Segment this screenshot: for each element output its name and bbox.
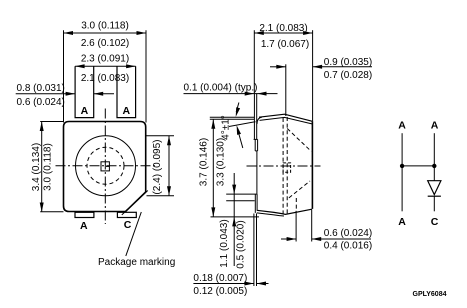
svg-text:0.6 (0.024): 0.6 (0.024) xyxy=(17,97,65,108)
svg-text:2.1 (0.083): 2.1 (0.083) xyxy=(259,23,307,34)
dimension (2.4) lens xyxy=(168,136,170,196)
svg-text:0.4 (0.016): 0.4 (0.016) xyxy=(324,240,372,251)
dimension 0.1 typ lead thickness xyxy=(184,93,255,95)
svg-text:3.3 (0.130): 3.3 (0.130) xyxy=(216,138,227,186)
svg-text:(2.4) (0.095): (2.4) (0.095) xyxy=(152,139,163,194)
hidden chip xyxy=(283,163,291,172)
svg-text:0.8 (0.031): 0.8 (0.031) xyxy=(17,83,65,94)
svg-text:0.6 (0.024): 0.6 (0.024) xyxy=(324,228,372,239)
inner dashed circle xyxy=(87,147,124,184)
dimension 0.6/0.4 foot xyxy=(281,238,296,240)
angle dimension 4 deg xyxy=(229,122,256,127)
wire bridge xyxy=(402,165,434,167)
svg-text:3.0 (0.118): 3.0 (0.118) xyxy=(81,21,129,32)
hidden reflector cone lower xyxy=(289,181,310,198)
svg-text:0.7 (0.028): 0.7 (0.028) xyxy=(324,70,372,81)
side view top edge xyxy=(259,114,312,121)
horizontal centerline top view xyxy=(56,165,156,167)
svg-text:0.18 (0.007): 0.18 (0.007) xyxy=(193,273,247,284)
svg-text:A: A xyxy=(80,220,88,232)
side view right face xyxy=(311,121,313,209)
svg-text:3.4 (0.134): 3.4 (0.134) xyxy=(31,143,42,191)
side view bottom edge xyxy=(257,209,312,214)
top view package body xyxy=(64,122,146,212)
top pad anode right xyxy=(117,66,136,117)
hidden reflector cone upper xyxy=(287,129,311,152)
hidden lead under body xyxy=(295,198,297,209)
svg-text:1.7 (0.067): 1.7 (0.067) xyxy=(261,39,309,50)
svg-text:0.5 (0.020): 0.5 (0.020) xyxy=(236,220,247,268)
svg-text:3.7 (0.146): 3.7 (0.146) xyxy=(199,138,210,186)
bottom pad cathode xyxy=(117,212,136,217)
svg-text:A: A xyxy=(398,120,406,132)
svg-text:0.12 (0.005): 0.12 (0.005) xyxy=(193,286,247,297)
svg-text:C: C xyxy=(124,219,132,231)
top pad anode left xyxy=(75,66,94,117)
dimension 0.9/0.7 xyxy=(270,66,286,68)
svg-text:2.6 (0.102): 2.6 (0.102) xyxy=(81,38,129,49)
svg-text:GPLY6084: GPLY6084 xyxy=(413,291,447,298)
downward solder lead xyxy=(253,214,255,287)
svg-text:A: A xyxy=(123,105,131,117)
dimension 0.18/0.12 lead thickness xyxy=(193,283,254,285)
dimension 1.1/0.5 lead xyxy=(226,193,257,195)
hidden reflector wall right xyxy=(286,117,288,214)
svg-text:C: C xyxy=(431,216,439,228)
package marking leader xyxy=(126,212,142,256)
wire right anode xyxy=(433,133,435,181)
svg-text:A: A xyxy=(81,105,89,117)
vertical centerline top view xyxy=(104,109,106,225)
dimension 0.8/0.6 pad width xyxy=(16,93,75,95)
svg-text:A: A xyxy=(431,120,439,132)
bottom pad anode xyxy=(75,212,94,217)
svg-text:0.1 (0.004) (typ.): 0.1 (0.004) (typ.) xyxy=(184,82,258,93)
chip square xyxy=(101,162,109,171)
side view left lead face xyxy=(253,94,255,140)
package marking chamfer line xyxy=(122,191,148,215)
dimension 2.3/2.1 pad span xyxy=(75,65,136,67)
dimension 2.1/1.7 depth xyxy=(254,32,312,34)
side view centerline xyxy=(247,165,321,167)
svg-text:1.1 (0.043): 1.1 (0.043) xyxy=(219,219,230,267)
dimension 3.0/2.6 width xyxy=(64,32,147,34)
lens circle xyxy=(76,136,136,196)
wire cathode below diode xyxy=(433,196,435,211)
svg-text:Package marking: Package marking xyxy=(98,257,175,268)
svg-text:2.3 (0.091): 2.3 (0.091) xyxy=(81,54,129,65)
diode D1 xyxy=(428,181,441,195)
wire left anode xyxy=(401,133,403,211)
svg-text:2.1 (0.083): 2.1 (0.083) xyxy=(81,73,129,84)
junction left xyxy=(400,164,404,168)
svg-text:A: A xyxy=(398,216,406,228)
dimension 3.4/3.0 height xyxy=(41,122,43,213)
svg-text:3.0 (0.118): 3.0 (0.118) xyxy=(42,143,53,191)
junction right xyxy=(432,164,436,168)
dimension 3.7/3.3 height xyxy=(212,119,214,217)
hidden reflector wall left xyxy=(282,118,284,214)
svg-text:0.9 (0.035): 0.9 (0.035) xyxy=(324,57,372,68)
